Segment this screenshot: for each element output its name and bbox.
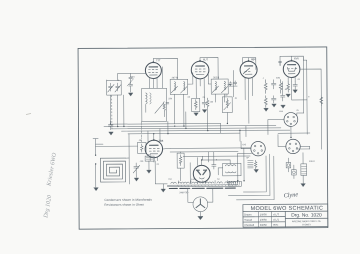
resistor block bias <box>177 153 184 168</box>
svg-text:6/9/50: 6/9/50 <box>260 224 268 227</box>
resistor R6 speaker <box>254 160 256 169</box>
field coil resistor block right <box>301 164 307 184</box>
IF transformer IFT2 <box>211 79 228 94</box>
title block <box>243 204 328 227</box>
wire gang verticals <box>110 95 117 127</box>
svg-text:262 B: 262 B <box>213 77 219 79</box>
wire volume to bus <box>226 113 228 124</box>
box left of V5 <box>138 142 147 153</box>
volume control potentiometer <box>222 97 232 113</box>
capacitor C9 <box>234 81 237 85</box>
ground under V2 <box>194 113 198 116</box>
wire V1 plate down <box>161 67 163 88</box>
svg-text:7J7: 7J7 <box>156 58 161 62</box>
ground under R5 <box>264 108 268 111</box>
wire V2 pins down <box>196 78 204 99</box>
pilot lamp L2 <box>292 165 297 179</box>
capacitor C4 lower <box>271 96 276 103</box>
wire V2 top cap <box>200 58 218 80</box>
capacitor C7 under V4 <box>293 81 297 89</box>
wire S3 leads <box>278 134 310 164</box>
svg-text:25M: 25M <box>168 98 172 100</box>
resistor R1 under V2 <box>192 98 200 111</box>
svg-text:AIRZONE RADIO CORP. LTD.: AIRZONE RADIO CORP. LTD. <box>292 220 321 223</box>
tube V4 6V6 output <box>283 61 300 78</box>
capacitor C3 under V3 <box>271 80 276 89</box>
svg-text:6U7: 6U7 <box>203 57 208 61</box>
ground speaker <box>254 169 258 172</box>
ground under R7 <box>286 94 290 97</box>
resistor R4 under V3 <box>279 80 282 94</box>
bus wire 1 <box>111 122 220 125</box>
svg-text:1M: 1M <box>225 95 228 97</box>
capacitor C6 near rectifier <box>212 162 216 169</box>
wire V3 top cap <box>243 58 256 70</box>
wire IFT1 to V2 <box>188 73 193 85</box>
sheet border frame <box>78 47 328 229</box>
tube V2 6U7 IF amplifier <box>191 61 209 79</box>
socket S1 viewed from below <box>284 113 298 127</box>
bus wire 5 <box>128 132 240 135</box>
ground heater chain <box>161 189 165 192</box>
gang dashed link <box>111 96 113 129</box>
svg-text:1/9/50: 1/9/50 <box>260 213 268 216</box>
wire V1 top cap <box>153 58 177 79</box>
capacitor C5 right of V4 <box>280 81 285 108</box>
svg-text:50M: 50M <box>276 78 280 80</box>
power transformer T1 <box>167 180 238 188</box>
stray pencil dash <box>26 114 31 115</box>
wire V4 top cap <box>280 56 303 65</box>
wire V1 pins down <box>150 78 157 89</box>
IF transformer IFT1 <box>170 79 188 94</box>
wire speaker box left <box>218 168 223 175</box>
tube V6 5Y3 rectifier <box>193 165 210 182</box>
svg-text:Drawn: Drawn <box>244 214 252 217</box>
tube V1 6J8 converter <box>145 62 161 78</box>
wire rectifier risers <box>190 152 214 184</box>
svg-text:Traced: Traced <box>244 219 252 222</box>
svg-text:d L/T: d L/T <box>273 213 279 216</box>
ground plug <box>198 216 203 219</box>
svg-text:Clyne: Clyne <box>283 191 298 199</box>
bus wire 3 <box>111 128 280 129</box>
svg-text:240V 50~: 240V 50~ <box>179 192 190 194</box>
tube V5 oscillator <box>145 140 163 158</box>
wire V6 pins <box>198 181 206 184</box>
svg-text:Resistances shown in Ohms: Resistances shown in Ohms <box>104 203 144 207</box>
ground left chain <box>94 188 98 191</box>
capacitor C8 <box>229 82 232 86</box>
wire nested corner 3 <box>236 156 274 200</box>
wire right verticals <box>292 56 322 149</box>
speaker label block <box>248 161 254 168</box>
wire aerial box to V1 <box>118 73 146 80</box>
svg-text:O.P.: O.P. <box>168 179 172 181</box>
wire V3 pins down <box>245 77 252 123</box>
svg-text:R7C: R7C <box>273 224 278 227</box>
socket S3 viewed from below <box>286 139 300 153</box>
svg-text:Drg. No. 1020: Drg. No. 1020 <box>291 212 322 218</box>
svg-text:SYDNEY: SYDNEY <box>302 224 311 226</box>
wire V5 cathode to transformer <box>155 161 167 189</box>
svg-text:Checked: Checked <box>244 224 254 227</box>
pilot lamp L1 <box>286 158 291 172</box>
capacitor C2 under V2 <box>202 99 206 108</box>
wire rectifier plate top <box>202 160 231 166</box>
wire AVC vertical <box>232 70 234 96</box>
output transformer box <box>223 163 241 176</box>
svg-text:6.3V: 6.3V <box>191 179 196 181</box>
wire S1-S3 link <box>278 132 310 134</box>
resistor R2 under V2 <box>206 98 209 109</box>
svg-text:7B8: 7B8 <box>159 139 164 143</box>
power plug P1 <box>193 197 208 216</box>
wire IFT2 to V2 <box>208 72 211 84</box>
svg-text:FIELD: FIELD <box>309 161 315 163</box>
loop antenna spiral <box>100 158 125 182</box>
bus wire 2 <box>104 126 276 127</box>
wire plug to transformer <box>188 188 213 202</box>
wire V5 pins down <box>150 157 157 162</box>
wire V4 pins down <box>288 76 295 81</box>
ground under C2 <box>202 110 206 113</box>
wire aerial box extra riser <box>123 95 125 126</box>
wire C8-C9 link <box>229 85 237 87</box>
ground under C4 <box>272 104 276 107</box>
wire V5 left pin down <box>148 161 150 170</box>
wire loop antenna feed <box>93 134 138 187</box>
padder capacitor <box>133 163 140 178</box>
wire bias block risers <box>180 152 182 181</box>
svg-text:MODEL 6WO SCHEMATIC: MODEL 6WO SCHEMATIC <box>251 206 324 212</box>
wire nested corner 1 <box>243 156 266 192</box>
junction dots <box>109 59 293 182</box>
component value labels <box>106 75 315 181</box>
svg-text:6V6: 6V6 <box>294 56 299 60</box>
bus wire 4 <box>121 130 289 131</box>
padder trimmer box <box>145 156 154 161</box>
wire S1 leads <box>268 113 304 138</box>
aerial tuning capacitor box <box>107 80 122 95</box>
resistor R7 under V4 <box>287 81 290 92</box>
wire V5 top <box>153 134 155 141</box>
resistor R3 under V3 <box>264 80 267 94</box>
gang dash-dot link osc <box>140 121 142 142</box>
svg-text:Condensers shown in Microfarad: Condensers shown in Microfarads <box>104 198 152 202</box>
handwritten pencil note <box>41 152 61 220</box>
capacitor grid V4 <box>279 61 282 65</box>
svg-text:d L/1: d L/1 <box>273 219 279 222</box>
ground V5 cathode <box>147 170 151 173</box>
wire box-V5 <box>144 147 147 149</box>
wire IFT2 coils down <box>215 94 224 102</box>
ground padder <box>134 178 138 181</box>
wire S2 leads <box>238 141 252 181</box>
wire nested corner 2 <box>228 154 270 196</box>
ground field coil <box>301 184 305 187</box>
wire IFT2 to V3 <box>228 84 231 86</box>
capacitor C1 coupling <box>127 73 133 86</box>
resistor R8 HT line <box>320 95 323 106</box>
tube V3 6B6 detector <box>240 61 257 78</box>
resistor R5 lower <box>264 96 267 108</box>
socket S2 viewed from below <box>251 141 265 155</box>
capacitor C gang trimmer to ground <box>108 121 113 130</box>
wire bus risers <box>168 109 246 142</box>
speaker field hatched coil <box>229 181 242 186</box>
svg-text:1/9/50: 1/9/50 <box>260 219 268 222</box>
ground gang <box>109 132 113 135</box>
wire center horizontals <box>163 148 251 157</box>
oscillator coil box <box>142 88 169 121</box>
ground under C7 <box>293 90 297 93</box>
trimmer aerial second section <box>128 81 132 96</box>
wire IFT1 coils down <box>175 94 184 126</box>
svg-text:267 B: 267 B <box>172 77 178 79</box>
